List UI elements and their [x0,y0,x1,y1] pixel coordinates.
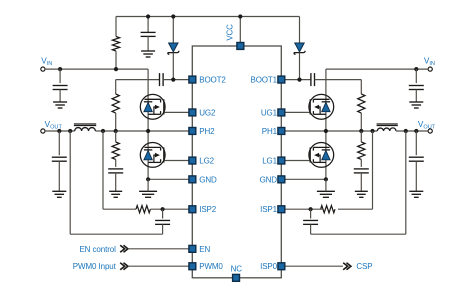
svg-text:LG1: LG1 [262,157,277,166]
svg-text:ISP0: ISP0 [260,262,277,271]
svg-text:UG1: UG1 [261,108,278,117]
svg-text:NC: NC [231,264,243,273]
svg-text:PH2: PH2 [199,127,215,136]
svg-text:PWM0: PWM0 [199,262,223,271]
svg-text:EN control: EN control [79,245,116,254]
svg-text:GND: GND [260,175,278,184]
svg-text:PH1: PH1 [262,127,278,136]
svg-text:GND: GND [199,175,217,184]
svg-text:LG2: LG2 [199,157,214,166]
svg-text:UG2: UG2 [199,108,216,117]
svg-text:ISP1: ISP1 [260,205,277,214]
svg-text:BOOT1: BOOT1 [251,76,278,85]
svg-text:CSP: CSP [356,262,372,271]
svg-text:BOOT2: BOOT2 [199,76,226,85]
svg-text:PWM0 Input: PWM0 Input [73,262,117,271]
svg-text:ISP2: ISP2 [199,205,216,214]
svg-text:EN: EN [199,245,210,254]
svg-text:VCC: VCC [226,24,235,41]
